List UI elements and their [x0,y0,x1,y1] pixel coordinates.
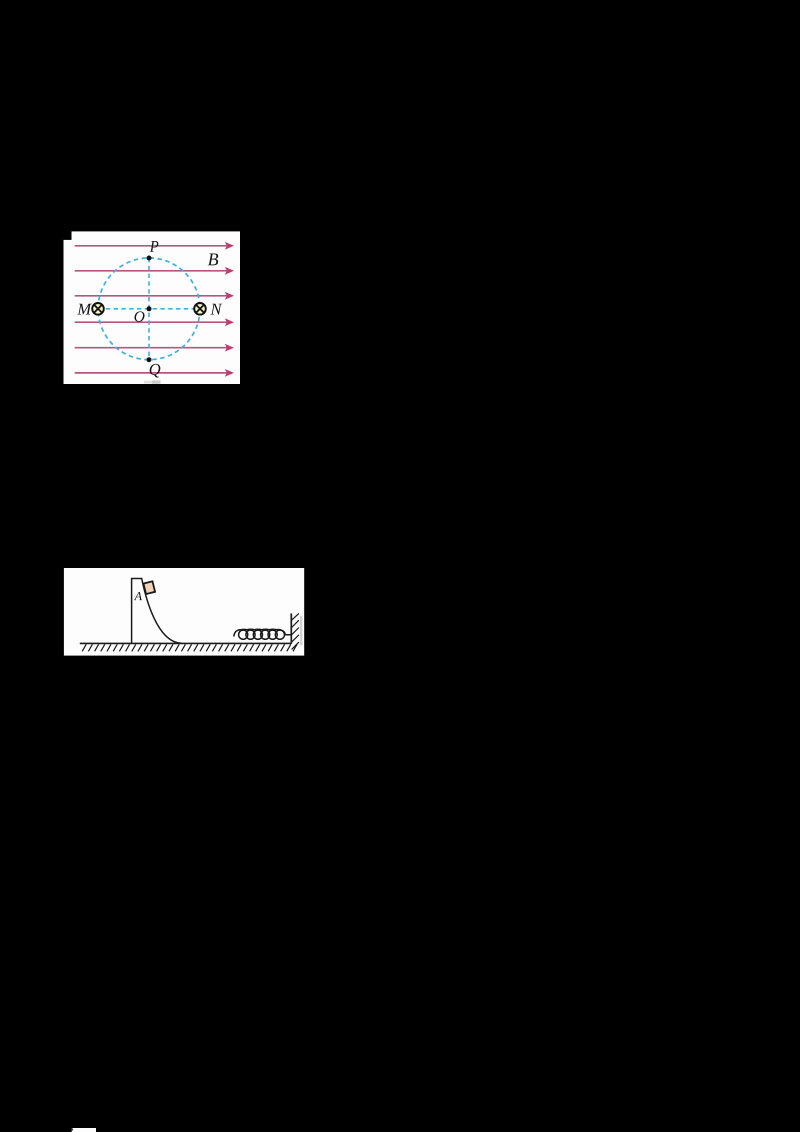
label A [134,592,142,600]
scan smudge [144,380,161,383]
dashed circle path [98,258,200,360]
spring coil [234,629,291,639]
label O [134,311,144,321]
label N [210,304,222,315]
bottom cut-off figure strip [72,1128,97,1132]
field line 3 [75,292,234,300]
dashed diameter MN [98,308,200,310]
node O [147,306,152,311]
field line 2 [75,267,234,275]
node Q [147,357,152,362]
dashed diameter PQ [148,258,150,360]
label P [150,241,159,252]
field line 4 [75,318,234,326]
block A on ramp [143,581,155,594]
ground line [80,642,291,644]
field line 5 [75,344,234,352]
node P [147,256,152,261]
label M [77,304,92,315]
field line 1 [75,242,234,250]
spring anchor wall [290,613,292,644]
ground hatching [82,644,297,651]
figure 1 white panel [64,231,241,384]
label Q [150,364,161,378]
field line 6 [75,369,234,377]
label B [208,254,218,266]
figure 2 white panel [64,568,304,656]
ramp wall with curved slide [132,579,182,644]
anchor wall hatching [292,613,299,649]
current-into-page symbol N [194,303,206,315]
scan grey bar [300,616,302,646]
current-into-page symbol M [92,303,104,315]
